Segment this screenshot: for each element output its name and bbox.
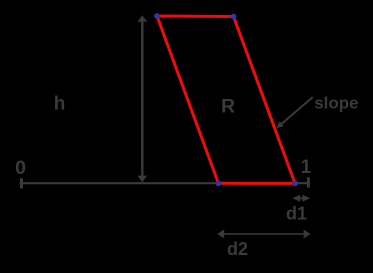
vertex dot bottom-left xyxy=(216,180,222,186)
d2 measure arrow (double-headed) xyxy=(217,230,310,239)
node 1 tick xyxy=(307,177,310,187)
vertex dot top-left xyxy=(154,13,160,19)
svg-text:R: R xyxy=(221,95,235,117)
svg-text:d2: d2 xyxy=(227,239,248,259)
vertex dot bottom-right xyxy=(292,181,298,187)
svg-text:h: h xyxy=(54,94,66,115)
node 0 tick xyxy=(20,178,23,188)
h measure arrow (vertical double-headed) xyxy=(137,15,147,182)
svg-text:0: 0 xyxy=(15,157,26,179)
svg-text:1: 1 xyxy=(300,156,311,178)
svg-text:d1: d1 xyxy=(286,203,307,223)
d1 measure arrow (short double-headed) xyxy=(292,195,310,202)
vertex dot top-right xyxy=(231,14,237,20)
svg-text:slope: slope xyxy=(314,93,358,112)
wire: x-axis line xyxy=(20,182,310,184)
parallelogram R (red) xyxy=(157,16,295,183)
slope pointer arrow xyxy=(276,97,313,128)
